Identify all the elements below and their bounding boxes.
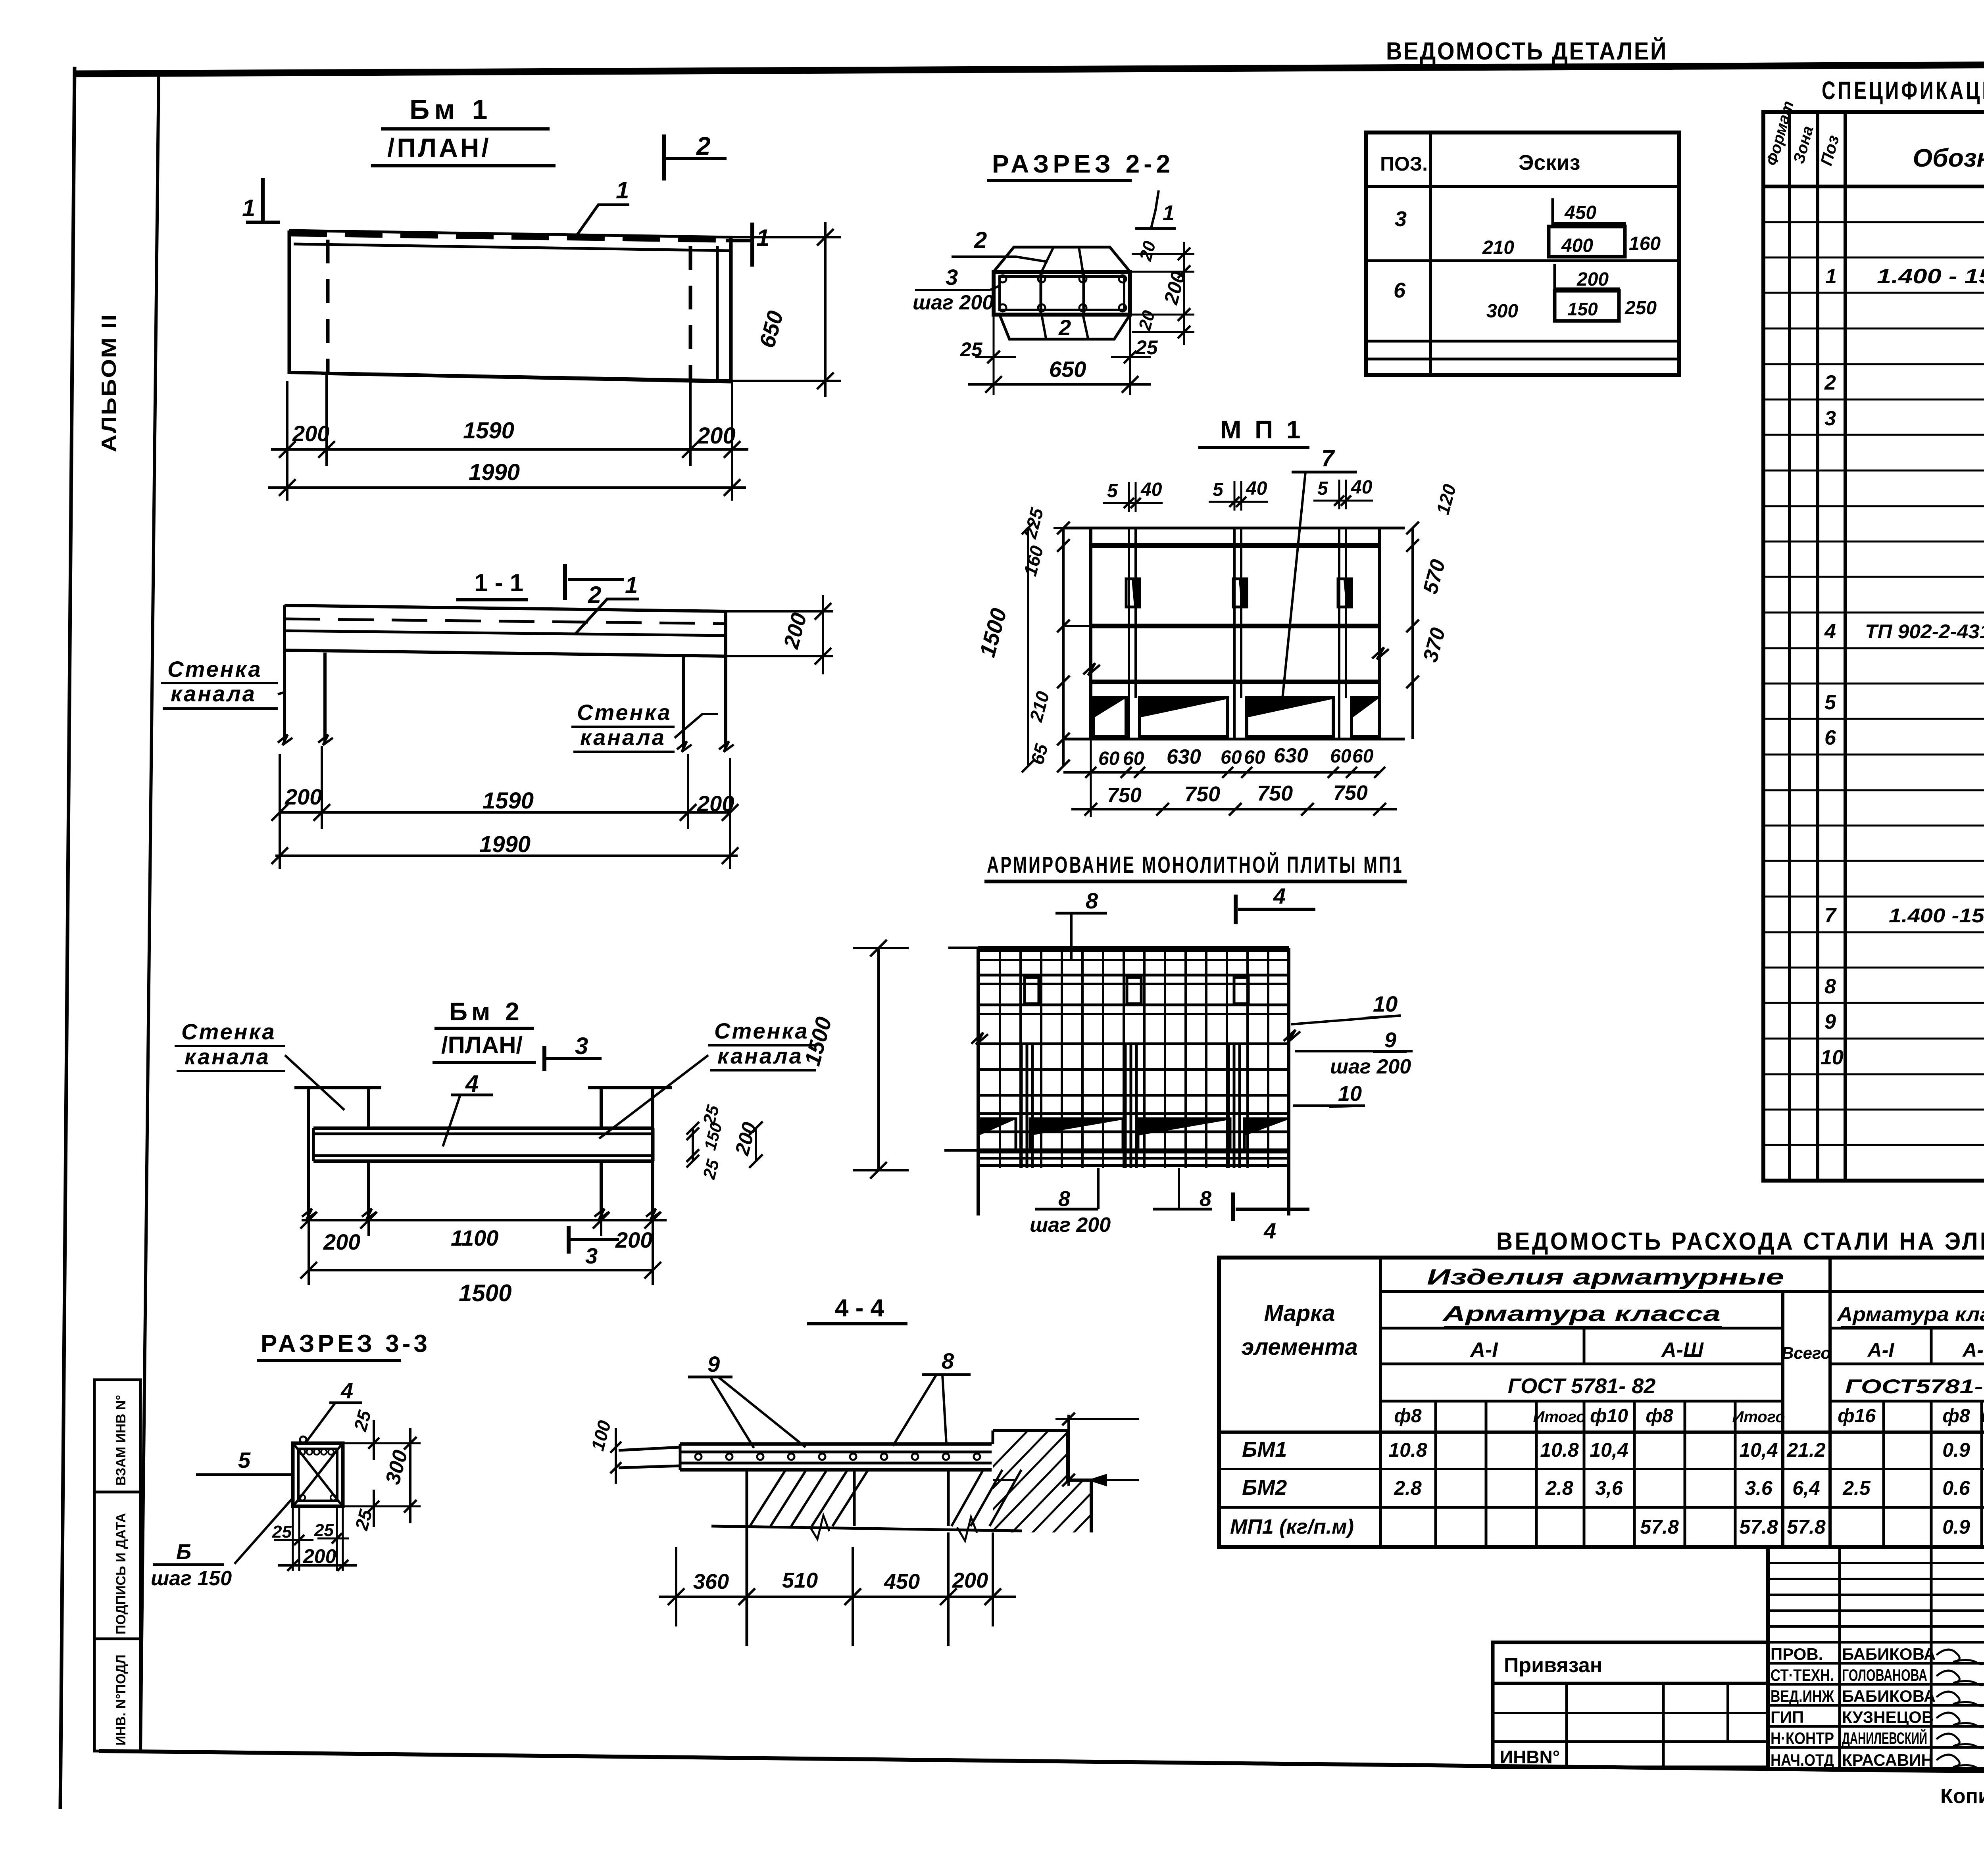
dimension 200 right of 1-1 <box>726 610 833 613</box>
svg-text:БМ1: БМ1 <box>1242 1438 1287 1461</box>
armature bottom label 8 right <box>1178 1168 1180 1209</box>
beam BM1 hidden edge right <box>689 246 692 380</box>
svg-text:Итого: Итого <box>1981 1408 1984 1426</box>
MP1 bottom dims 750 <box>1071 808 1397 810</box>
spec table frame <box>1763 112 1984 1181</box>
svg-text:КУЗНЕЦОВ: КУЗНЕЦОВ <box>1842 1708 1934 1726</box>
svg-text:60: 60 <box>1123 748 1144 769</box>
svg-text:БАБИКОВА: БАБИКОВА <box>1842 1687 1936 1705</box>
beam BM1 inner right vertical <box>716 246 719 380</box>
svg-text:60: 60 <box>1244 747 1265 768</box>
dimension 20 200 20 right of 2-2 <box>1132 253 1194 255</box>
svg-text:канала: канала <box>171 681 256 706</box>
sheet top border <box>75 62 1984 74</box>
svg-text:АРМИРОВАНИЕ МОНОЛИТНОЙ ПЛИТЫ М: АРМИРОВАНИЕ МОНОЛИТНОЙ ПЛИТЫ МП1 <box>987 852 1403 878</box>
svg-text:4: 4 <box>1263 1218 1276 1243</box>
svg-text:3: 3 <box>1395 207 1407 231</box>
svg-text:ф10: ф10 <box>1590 1406 1628 1427</box>
armature border <box>978 946 1289 949</box>
dimension 200 1590 200 below 1-1 <box>280 811 730 814</box>
svg-text:ф16: ф16 <box>1838 1406 1876 1427</box>
svg-text:210: 210 <box>1482 237 1514 258</box>
svg-text:10: 10 <box>1373 991 1398 1016</box>
svg-text:630: 630 <box>1274 744 1308 767</box>
svg-text:3: 3 <box>575 1033 588 1059</box>
svg-text:200: 200 <box>323 1229 360 1254</box>
section 4-4 ground line <box>711 1526 1022 1531</box>
armature leader 9 shag200 <box>1295 1050 1413 1052</box>
svg-text:Б: Б <box>176 1540 191 1564</box>
svg-text:4: 4 <box>465 1070 479 1097</box>
svg-text:3,6: 3,6 <box>1595 1477 1623 1499</box>
svg-text:7: 7 <box>1321 445 1335 471</box>
svg-text:10.8: 10.8 <box>1540 1439 1579 1461</box>
armature left ext <box>948 947 978 949</box>
svg-text:10.8: 10.8 <box>1388 1439 1427 1461</box>
dimension 650 right <box>732 236 841 238</box>
svg-text:160: 160 <box>1629 233 1661 254</box>
section 4-4 wall2 hatched <box>947 1470 950 1526</box>
svg-text:ПОЗ.: ПОЗ. <box>1380 153 1428 175</box>
MP1 bottom dims 60 630 <box>1090 739 1092 817</box>
armature stirrups clusters <box>1020 1043 1023 1168</box>
sheet inner margin line <box>140 73 159 1752</box>
svg-text:1: 1 <box>616 177 629 204</box>
privyazan box <box>1493 1642 1768 1767</box>
svg-text:Итого: Итого <box>1732 1408 1785 1426</box>
svg-text:Арматура класса: Арматура класса <box>1442 1302 1721 1326</box>
dims 360 510 450 200 below 4-4 <box>659 1596 1016 1598</box>
svg-text:Итого: Итого <box>1533 1408 1586 1426</box>
svg-text:Эскиз: Эскиз <box>1519 151 1580 175</box>
svg-text:НАЧ.ОТД: НАЧ.ОТД <box>1771 1751 1834 1769</box>
title block outer <box>1768 1547 1984 1769</box>
sheet outer left border <box>60 67 75 1809</box>
svg-text:Изделия арматурные: Изделия арматурные <box>1427 1264 1784 1289</box>
svg-text:2: 2 <box>588 582 601 608</box>
svg-text:1: 1 <box>242 195 255 221</box>
armature grid <box>978 949 1289 952</box>
svg-text:0.6: 0.6 <box>1942 1477 1971 1499</box>
dims 25 300 25 right 3-3 <box>343 1442 421 1444</box>
svg-text:25: 25 <box>1135 336 1158 359</box>
svg-text:СТ·ТЕХН.: СТ·ТЕХН. <box>1771 1666 1834 1684</box>
svg-text:1500: 1500 <box>459 1280 511 1306</box>
armature marker 4 top <box>1234 895 1238 924</box>
section marker 2 bottom <box>563 564 567 600</box>
svg-text:25: 25 <box>272 1522 292 1542</box>
svg-text:8: 8 <box>1086 888 1098 913</box>
svg-text:Копировал. Коршунова: Копировал. Коршунова <box>1940 1785 1984 1808</box>
svg-text:АЛЬБОМ II: АЛЬБОМ II <box>98 313 121 452</box>
svg-text:ГОСТ 5781- 82: ГОСТ 5781- 82 <box>1508 1374 1656 1398</box>
svg-text:0.9: 0.9 <box>1942 1516 1970 1538</box>
title block name rows <box>1768 1662 1984 1665</box>
svg-text:200: 200 <box>615 1227 652 1252</box>
svg-text:450: 450 <box>884 1570 920 1594</box>
svg-text:1590: 1590 <box>463 418 514 444</box>
svg-text:400: 400 <box>1561 235 1593 256</box>
svg-text:ИНВN°: ИНВN° <box>1500 1747 1560 1767</box>
svg-text:ГОЛОВАНОВА: ГОЛОВАНОВА <box>1842 1666 1927 1684</box>
svg-text:РАЗРЕЗ 2-2: РАЗРЕЗ 2-2 <box>992 150 1174 178</box>
svg-text:10,4: 10,4 <box>1739 1439 1778 1461</box>
svg-text:1: 1 <box>1825 265 1837 288</box>
svg-text:9: 9 <box>1824 1010 1836 1033</box>
section 1-1 left wall <box>283 650 286 743</box>
svg-text:630: 630 <box>1167 745 1201 768</box>
svg-text:ВЕДОМОСТЬ ДЕТАЛЕЙ: ВЕДОМОСТЬ ДЕТАЛЕЙ <box>1386 37 1668 65</box>
svg-text:4: 4 <box>340 1378 353 1403</box>
svg-text:8: 8 <box>1824 975 1836 998</box>
svg-text:8: 8 <box>1058 1187 1070 1211</box>
section 4-4 wall1 hatched <box>746 1470 748 1526</box>
dimension 1990 below 1-1 <box>275 854 738 857</box>
svg-text:элемента: элемента <box>1241 1334 1358 1360</box>
svg-text:шаг 200: шаг 200 <box>1330 1055 1411 1078</box>
svg-text:2: 2 <box>1058 315 1071 340</box>
svg-text:ПОДПИСЬ И ДАТА: ПОДПИСЬ И ДАТА <box>113 1513 129 1634</box>
svg-text:СПЕЦИФИКАЦИЯ МОНОЛИТНЫХ ЭЛЕМ: СПЕЦИФИКАЦИЯ МОНОЛИТНЫХ ЭЛЕМЕНТОВ <box>1822 76 1984 105</box>
title block left thin rows <box>1768 1562 1984 1564</box>
svg-text:А-Ш: А-Ш <box>1661 1338 1704 1361</box>
svg-text:ТП 902-2-431.87 - КЖИ. 49.0: ТП 902-2-431.87 - КЖИ. 49.0 <box>1865 620 1984 643</box>
svg-text:8: 8 <box>1200 1187 1211 1211</box>
section 4-4 slab rebar dots <box>695 1454 702 1460</box>
signatures <box>1936 1649 1984 1769</box>
dims 25 25 200 below 3-3 <box>298 1506 300 1571</box>
svg-text:2: 2 <box>1824 371 1836 394</box>
svg-text:2: 2 <box>974 227 987 253</box>
svg-text:200: 200 <box>697 423 736 449</box>
steel table horizontals <box>1380 1290 1984 1293</box>
spec table row lines <box>1763 221 1984 223</box>
svg-text:200: 200 <box>292 421 329 446</box>
svg-text:Н·КОНТР: Н·КОНТР <box>1771 1729 1834 1747</box>
svg-text:1.400 -15, В1 140 - 05: 1.400 -15, В1 140 - 05 <box>1889 904 1984 927</box>
svg-text:1100: 1100 <box>451 1225 498 1250</box>
left stamp box column <box>94 1380 140 1751</box>
leader 1 to 1-1 slab <box>575 599 639 634</box>
svg-text:Всего: Всего <box>1782 1344 1831 1362</box>
svg-text:6: 6 <box>1394 278 1406 302</box>
svg-text:шаг 150: шаг 150 <box>151 1567 232 1590</box>
svg-text:А-Ш: А-Ш <box>1962 1339 1984 1361</box>
svg-text:Бм 2: Бм 2 <box>449 997 523 1026</box>
vertical dimension 1500 right <box>877 948 880 1170</box>
MP1 voids with black wedges <box>1093 698 1126 737</box>
svg-text:шаг 200: шаг 200 <box>1030 1214 1111 1237</box>
dimension 25 25 650 below 2-2 <box>993 315 995 395</box>
svg-text:750: 750 <box>1257 782 1293 805</box>
svg-text:60: 60 <box>1330 746 1352 767</box>
section 1-1 right wall <box>682 655 685 749</box>
svg-text:5: 5 <box>1213 479 1224 500</box>
svg-text:Привязан: Привязан <box>1504 1654 1602 1677</box>
svg-text:1: 1 <box>1163 201 1175 225</box>
svg-text:5: 5 <box>1107 480 1118 501</box>
svg-text:ВЗАМ ИНВ N°: ВЗАМ ИНВ N° <box>113 1395 129 1486</box>
svg-text:60: 60 <box>1098 748 1120 769</box>
section 2-2 formwork above <box>994 247 1130 272</box>
svg-text:БМ2: БМ2 <box>1242 1476 1287 1500</box>
svg-text:60: 60 <box>1221 747 1242 768</box>
svg-text:60: 60 <box>1352 746 1374 767</box>
svg-text:10,4: 10,4 <box>1590 1439 1628 1461</box>
svg-text:10: 10 <box>1821 1046 1844 1069</box>
svg-text:канала: канала <box>185 1044 270 1069</box>
svg-text:360: 360 <box>693 1570 729 1594</box>
svg-text:6,4: 6,4 <box>1792 1477 1820 1499</box>
svg-text:Арматура класса: Арматура класса <box>1836 1303 1984 1325</box>
svg-text:ф8: ф8 <box>1394 1406 1421 1427</box>
svg-text:25: 25 <box>314 1521 334 1540</box>
MP1 grid verticals <box>1128 528 1130 739</box>
svg-text:1990: 1990 <box>479 831 531 857</box>
dimension 1500 below BM2 <box>309 1269 653 1271</box>
svg-text:ВЕД.ИНЖ: ВЕД.ИНЖ <box>1771 1687 1834 1705</box>
svg-text:2.5: 2.5 <box>1842 1477 1871 1499</box>
svg-text:40: 40 <box>1351 477 1373 498</box>
svg-text:Стенка: Стенка <box>181 1019 276 1044</box>
svg-text:5: 5 <box>1824 691 1836 714</box>
MP1 slab outline <box>1063 527 1405 530</box>
svg-text:1990: 1990 <box>469 459 520 485</box>
svg-text:МП1 (кг/п.м): МП1 (кг/п.м) <box>1230 1515 1354 1538</box>
section 4-4 right concrete block <box>993 1431 1091 1532</box>
svg-text:3: 3 <box>1824 407 1836 430</box>
svg-text:ВЕДОМОСТЬ РАСХОДА СТАЛИ НА: ВЕДОМОСТЬ РАСХОДА СТАЛИ НА ЭЛЕМЕНТ, КГ <box>1496 1228 1984 1255</box>
svg-text:200: 200 <box>952 1569 988 1592</box>
svg-text:1: 1 <box>625 572 638 598</box>
svg-text:ДАНИЛЕВСКИЙ: ДАНИЛЕВСКИЙ <box>1842 1728 1927 1747</box>
svg-text:4 - 4: 4 - 4 <box>835 1294 884 1322</box>
svg-text:4: 4 <box>1273 883 1286 908</box>
svg-text:2.8: 2.8 <box>1394 1477 1422 1499</box>
svg-text:ГИП: ГИП <box>1771 1708 1804 1726</box>
steel table outer <box>1219 1258 1984 1547</box>
svg-text:А-I: А-I <box>1867 1339 1895 1361</box>
armature leader 10 upper <box>1291 1016 1401 1024</box>
svg-text:Стенка: Стенка <box>577 700 672 725</box>
svg-text:Марка: Марка <box>1264 1300 1335 1326</box>
svg-text:200: 200 <box>303 1545 336 1567</box>
svg-text:200: 200 <box>1576 269 1609 290</box>
svg-text:5: 5 <box>1317 478 1328 499</box>
beam BM2 walls <box>307 1088 310 1217</box>
sheet bottom border <box>99 1751 1984 1777</box>
svg-text:ф8: ф8 <box>1646 1406 1673 1427</box>
svg-text:Обозначение: Обозначение <box>1913 144 1984 172</box>
svg-text:4: 4 <box>1824 620 1836 643</box>
svg-text:510: 510 <box>782 1569 818 1592</box>
svg-text:РАЗРЕЗ 3-3: РАЗРЕЗ 3-3 <box>261 1330 431 1358</box>
svg-text:9: 9 <box>707 1352 720 1377</box>
svg-text:40: 40 <box>1140 479 1162 500</box>
svg-text:ф8: ф8 <box>1942 1406 1970 1427</box>
svg-text:М П 1: М П 1 <box>1220 415 1303 444</box>
svg-text:5: 5 <box>238 1448 251 1473</box>
svg-text:1590: 1590 <box>483 788 534 814</box>
svg-text:200: 200 <box>697 791 734 816</box>
svg-text:9: 9 <box>1384 1028 1396 1052</box>
svg-text:Стенка: Стенка <box>714 1018 809 1043</box>
section marker 1 right <box>750 223 754 267</box>
svg-text:канала: канала <box>580 725 666 750</box>
beam BM1 hidden edge left <box>326 240 330 373</box>
armature marker 4 bottom <box>1231 1192 1235 1221</box>
MP1 embedded plates <box>1126 579 1140 607</box>
section 2-2 stirrup <box>994 272 1130 315</box>
svg-text:2: 2 <box>696 132 711 160</box>
dimension 25 150 25 200 right of BM2 <box>692 1128 694 1161</box>
svg-text:Стенка: Стенка <box>167 657 262 682</box>
armature bottom label 8 shag200 left <box>1097 1168 1100 1209</box>
MP1 break marks <box>1083 663 1100 675</box>
svg-text:А-I: А-I <box>1469 1338 1498 1361</box>
svg-text:6: 6 <box>1824 726 1836 749</box>
steel table verticals <box>1379 1258 1382 1547</box>
svg-text:ПРОВ.: ПРОВ. <box>1771 1645 1823 1663</box>
svg-text:ИНВ. N°ПОДЛ: ИНВ. N°ПОДЛ <box>113 1655 129 1745</box>
svg-text:57.8: 57.8 <box>1640 1516 1679 1538</box>
svg-text:Бм 1: Бм 1 <box>409 94 492 125</box>
svg-text:/ПЛАН/: /ПЛАН/ <box>441 1032 523 1058</box>
svg-text:3.6: 3.6 <box>1745 1477 1773 1499</box>
svg-text:2.8: 2.8 <box>1545 1477 1573 1499</box>
section 2-2 formwork below <box>1000 315 1130 339</box>
svg-text:БАБИКОВА: БАБИКОВА <box>1842 1645 1936 1663</box>
svg-text:1 - 1: 1 - 1 <box>474 569 523 597</box>
section 2-2 rebar dots <box>999 275 1006 282</box>
svg-text:8: 8 <box>942 1348 954 1373</box>
svg-text:450: 450 <box>1564 202 1596 223</box>
svg-text:150: 150 <box>1567 299 1598 319</box>
section 1-1 slab <box>285 605 726 611</box>
section 3-3 diagonals <box>294 1444 342 1505</box>
section marker 2 top <box>662 134 666 180</box>
beam BM2 body <box>313 1127 653 1130</box>
svg-text:200: 200 <box>285 784 322 809</box>
details table frame <box>1366 132 1679 375</box>
section 3-3 rebar dots <box>300 1449 305 1455</box>
dimension 200 1100 200 below BM2 <box>302 1219 667 1221</box>
beam BM1 outline <box>289 230 732 237</box>
svg-text:650: 650 <box>1049 357 1086 382</box>
svg-text:10: 10 <box>1338 1082 1362 1106</box>
svg-text:КРАСАВИН: КРАСАВИН <box>1842 1751 1933 1769</box>
svg-text:750: 750 <box>1333 782 1368 805</box>
dimension 1990 below BM1 <box>268 486 746 489</box>
armature embedded plates <box>1025 977 1039 1004</box>
svg-text:57.8: 57.8 <box>1787 1516 1826 1538</box>
section 3-3 square <box>293 1443 343 1506</box>
svg-text:/ПЛАН/: /ПЛАН/ <box>387 133 491 162</box>
svg-text:7: 7 <box>1824 904 1837 927</box>
svg-text:57.8: 57.8 <box>1739 1516 1778 1538</box>
armature bottom slab voids <box>978 1119 1016 1152</box>
svg-text:канала: канала <box>717 1043 803 1068</box>
section marker 3 bottom <box>567 1226 571 1254</box>
section marker 3 top <box>542 1046 546 1071</box>
svg-text:300: 300 <box>1486 301 1518 322</box>
svg-text:250: 250 <box>1624 298 1657 319</box>
svg-text:21.2: 21.2 <box>1786 1439 1826 1461</box>
armature leader 10 lower <box>1293 1104 1365 1107</box>
svg-text:0.9: 0.9 <box>1942 1439 1970 1461</box>
section 4-4 right dim <box>1067 1415 1070 1486</box>
dimension 200 1590 200 below BM1 <box>271 448 748 451</box>
svg-text:750: 750 <box>1184 782 1220 806</box>
svg-text:шаг 200: шаг 200 <box>913 291 994 314</box>
label 1 leader right <box>1151 190 1159 228</box>
svg-text:3: 3 <box>585 1243 598 1268</box>
svg-text:1.400 - 15.81.540 - 09: 1.400 - 15.81.540 - 09 <box>1877 265 1984 288</box>
svg-text:3: 3 <box>946 265 958 290</box>
leader 1 to beam top <box>575 205 629 237</box>
svg-text:750: 750 <box>1107 784 1142 807</box>
svg-text:25: 25 <box>960 338 983 361</box>
section 4-4 slab <box>619 1447 680 1450</box>
section marker 1 left <box>261 178 265 224</box>
svg-text:40: 40 <box>1246 478 1267 499</box>
svg-text:ГОСТ5781- 82: ГОСТ5781- 82 <box>1845 1375 1984 1398</box>
